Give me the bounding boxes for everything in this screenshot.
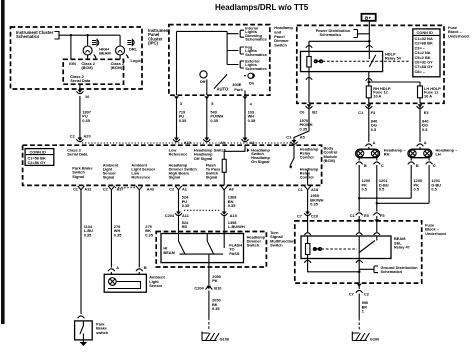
svg-text:C204: C204 bbox=[194, 286, 204, 291]
svg-text:PK: PK bbox=[212, 278, 218, 283]
svg-text:0.5: 0.5 bbox=[362, 187, 368, 192]
svg-text:LH: LH bbox=[436, 152, 441, 157]
svg-text:BEAM: BEAM bbox=[99, 50, 110, 55]
svg-text:0.35: 0.35 bbox=[212, 306, 220, 311]
svg-text:RD: RD bbox=[182, 224, 188, 229]
svg-text:Serial Data: Serial Data bbox=[67, 152, 88, 157]
svg-text:Schematics: Schematics bbox=[245, 66, 267, 71]
svg-text:On Signal: On Signal bbox=[251, 159, 269, 164]
svg-text:On: On bbox=[249, 80, 255, 85]
svg-text:switch: switch bbox=[96, 330, 109, 335]
svg-text:A8: A8 bbox=[229, 186, 235, 191]
svg-text:A18: A18 bbox=[311, 187, 319, 192]
svg-text:(BCM): (BCM) bbox=[81, 65, 93, 70]
svg-text:C204: C204 bbox=[165, 213, 175, 218]
svg-text:Schematics: Schematics bbox=[16, 34, 40, 39]
svg-text:10: 10 bbox=[85, 94, 89, 99]
svg-text:0.35: 0.35 bbox=[310, 202, 318, 207]
svg-text:0.35: 0.35 bbox=[179, 118, 187, 123]
svg-text:Signal: Signal bbox=[169, 174, 181, 179]
svg-text:B+: B+ bbox=[365, 16, 371, 21]
svg-text:A10: A10 bbox=[184, 140, 191, 145]
svg-text:0.5: 0.5 bbox=[422, 127, 428, 132]
svg-text:AUTO: AUTO bbox=[217, 87, 230, 92]
svg-text:CONN ID: CONN ID bbox=[30, 149, 47, 154]
svg-text:C7: C7 bbox=[349, 292, 354, 297]
svg-text:A: A bbox=[116, 265, 119, 270]
svg-text:Schematics: Schematics bbox=[245, 36, 267, 41]
svg-text:B2: B2 bbox=[312, 110, 318, 115]
svg-text:Relay 54: Relay 54 bbox=[385, 56, 402, 61]
svg-text:Reference: Reference bbox=[131, 174, 151, 179]
svg-text:Headlamps/DRL w/o TT5: Headlamps/DRL w/o TT5 bbox=[215, 3, 309, 12]
svg-text:E3: E3 bbox=[424, 110, 430, 115]
svg-text:Off Signal: Off Signal bbox=[194, 156, 212, 161]
svg-text:C8= –: C8= – bbox=[415, 69, 426, 74]
svg-text:C2: C2 bbox=[103, 186, 109, 191]
svg-text:C7: C7 bbox=[297, 213, 302, 218]
svg-text:G106: G106 bbox=[220, 337, 230, 342]
svg-text:L-BU/WH: L-BU/WH bbox=[228, 224, 245, 229]
svg-text:A31: A31 bbox=[84, 186, 92, 191]
svg-text:A9: A9 bbox=[220, 140, 226, 145]
svg-text:A15: A15 bbox=[230, 213, 238, 218]
svg-text:10 A: 10 A bbox=[424, 94, 432, 99]
svg-text:A: A bbox=[424, 140, 427, 145]
svg-text:0.35: 0.35 bbox=[84, 232, 92, 237]
svg-text:A43: A43 bbox=[147, 186, 155, 191]
svg-text:CONN ID: CONN ID bbox=[417, 30, 434, 35]
svg-text:B: B bbox=[144, 265, 147, 270]
svg-text:C1: C1 bbox=[298, 187, 304, 192]
svg-text:C: C bbox=[381, 163, 384, 168]
svg-text:RH: RH bbox=[384, 152, 390, 157]
svg-text:C2: C2 bbox=[364, 292, 370, 297]
svg-text:B: B bbox=[364, 163, 367, 168]
svg-text:0.35: 0.35 bbox=[182, 203, 190, 208]
svg-text:PASS: PASS bbox=[229, 251, 240, 256]
svg-text:(BCM): (BCM) bbox=[324, 158, 336, 163]
svg-text:Schematics: Schematics bbox=[320, 32, 342, 37]
svg-text:(BCM): (BCM) bbox=[111, 65, 123, 70]
svg-text:Control: Control bbox=[300, 174, 314, 179]
svg-text:0.5: 0.5 bbox=[371, 127, 377, 132]
svg-text:Signal: Signal bbox=[72, 174, 84, 179]
svg-text:B: B bbox=[416, 163, 419, 168]
svg-text:A1: A1 bbox=[182, 186, 188, 191]
svg-text:Schematics: Schematics bbox=[381, 269, 403, 274]
svg-text:C: C bbox=[433, 163, 436, 168]
svg-text:E5: E5 bbox=[364, 213, 370, 218]
svg-text:Serial Data: Serial Data bbox=[70, 78, 91, 83]
svg-text:Switch: Switch bbox=[247, 243, 260, 248]
svg-text:C2=56 GY: C2=56 GY bbox=[28, 160, 47, 165]
svg-text:Reference: Reference bbox=[169, 152, 189, 157]
svg-text:IGN: IGN bbox=[69, 61, 76, 66]
svg-text:B10: B10 bbox=[214, 286, 221, 291]
svg-text:C2: C2 bbox=[169, 186, 175, 191]
svg-text:DRL: DRL bbox=[129, 46, 138, 51]
svg-text:0.35: 0.35 bbox=[248, 118, 256, 123]
svg-text:0.5: 0.5 bbox=[379, 187, 385, 192]
svg-text:0.35: 0.35 bbox=[145, 232, 153, 237]
svg-text:C10: C10 bbox=[311, 213, 318, 218]
svg-text:C1: C1 bbox=[350, 213, 356, 218]
svg-text:C1: C1 bbox=[286, 135, 292, 140]
svg-text:(IPC): (IPC) bbox=[148, 41, 158, 46]
svg-text:Logic: Logic bbox=[131, 58, 142, 63]
svg-text:A2: A2 bbox=[250, 140, 256, 145]
svg-text:Underhood: Underhood bbox=[448, 34, 469, 39]
svg-text:C2: C2 bbox=[70, 133, 76, 138]
svg-text:Underhood: Underhood bbox=[425, 231, 446, 236]
svg-text:A20: A20 bbox=[84, 133, 91, 138]
svg-text:C1: C1 bbox=[73, 186, 79, 191]
svg-text:Switch: Switch bbox=[274, 42, 287, 47]
svg-text:10 A: 10 A bbox=[373, 94, 381, 99]
svg-text:G106: G106 bbox=[370, 337, 380, 342]
svg-text:Control: Control bbox=[300, 154, 314, 159]
svg-text:Park: Park bbox=[234, 87, 243, 92]
svg-text:0.35: 0.35 bbox=[300, 126, 308, 131]
svg-text:C6: C6 bbox=[300, 110, 306, 115]
svg-text:A: A bbox=[373, 140, 376, 145]
svg-text:Schematics: Schematics bbox=[245, 52, 267, 57]
svg-text:Signal: Signal bbox=[103, 174, 115, 179]
svg-text:0.5: 0.5 bbox=[414, 187, 420, 192]
svg-text:C1: C1 bbox=[358, 110, 364, 115]
svg-text:0.35: 0.35 bbox=[210, 118, 218, 123]
svg-text:0.35: 0.35 bbox=[114, 232, 122, 237]
svg-text:A11: A11 bbox=[182, 213, 190, 218]
svg-text:BEAM: BEAM bbox=[163, 250, 174, 255]
svg-text:Relay 47: Relay 47 bbox=[394, 245, 410, 250]
svg-text:Sensor: Sensor bbox=[149, 283, 163, 288]
svg-text:A5: A5 bbox=[300, 135, 306, 140]
svg-text:Off: Off bbox=[200, 79, 206, 84]
svg-text:Switch: Switch bbox=[270, 243, 283, 248]
svg-text:Signal: Signal bbox=[206, 174, 218, 179]
svg-text:0.5: 0.5 bbox=[431, 187, 437, 192]
svg-text:A37: A37 bbox=[117, 186, 124, 191]
svg-text:0.35: 0.35 bbox=[228, 203, 236, 208]
svg-text:0.35: 0.35 bbox=[82, 118, 90, 123]
